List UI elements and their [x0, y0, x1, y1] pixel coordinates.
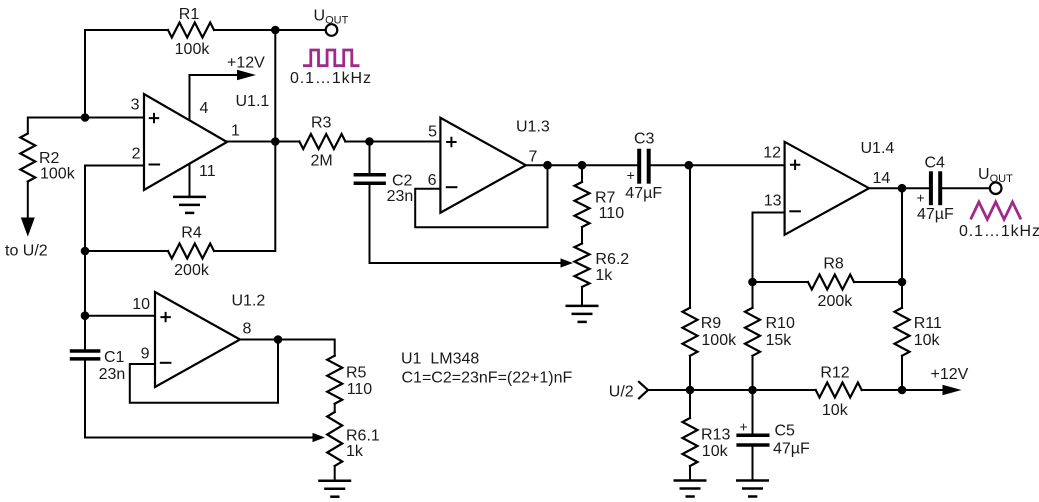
wire R4 right lead and vertical to R1 row [214, 30, 275, 251]
terminal circle UOUT left [326, 24, 338, 36]
resistor R11 [895, 308, 910, 356]
wire U1.2 output to R5 [240, 340, 335, 356]
op-amp U1.2 [155, 292, 240, 387]
wire R12 left lead [753, 389, 816, 391]
resistor R6.1 (pot) [327, 412, 342, 466]
resistor R8 [808, 275, 854, 290]
svg-text:U/2: U/2 [609, 383, 634, 400]
node U1.3 feedback [543, 161, 552, 170]
wire +input row to pin3 [85, 117, 144, 119]
svg-text:+: + [917, 190, 925, 206]
wire R1 right lead to output terminal [214, 29, 325, 31]
svg-text:100k: 100k [40, 166, 76, 183]
wire left bus top (R1 to +input row) [84, 30, 86, 118]
node R3/C2 [365, 137, 374, 146]
ground R6.1 [318, 481, 351, 497]
svg-text:C2: C2 [392, 173, 413, 190]
wire R11 column top (from U1.4 output) [901, 188, 903, 308]
resistor R13 [683, 418, 698, 466]
svg-text:C3: C3 [634, 131, 655, 148]
svg-text:+12V: +12V [931, 366, 969, 383]
plus sign U1.1 [150, 114, 158, 122]
svg-text:R6.2: R6.2 [595, 251, 629, 268]
capacitor C3 [639, 149, 649, 184]
wire R3 right lead to U1.3 pin5 [345, 141, 440, 143]
arrowhead wiper R6.2 [561, 258, 574, 267]
svg-text:47µF: 47µF [917, 206, 954, 223]
ground R6.2 [566, 306, 599, 322]
svg-text:R6.1: R6.1 [346, 428, 380, 445]
input chevron U/2 [639, 382, 648, 398]
node C3/R9 [685, 161, 694, 170]
node U/2 R10 [748, 386, 757, 395]
wire U1.4 pin13 loop [753, 213, 785, 283]
capacitor C4 [931, 171, 940, 205]
ground R13 [674, 481, 707, 497]
wire C2 top lead [369, 142, 371, 173]
wire C3 right to U1.4 pin12 [651, 164, 785, 166]
svg-text:200k: 200k [174, 262, 210, 279]
svg-text:R10: R10 [766, 315, 795, 332]
wire R8 left lead [753, 281, 809, 283]
svg-text:47µF: 47µF [625, 185, 662, 202]
resistor R1 [168, 23, 214, 38]
node U1.2 output [274, 335, 283, 344]
resistor R7 [575, 182, 590, 227]
svg-text:47µF: 47µF [773, 441, 810, 458]
svg-text:8: 8 [243, 321, 252, 338]
wire R4 left lead [85, 250, 168, 252]
node +input U1.1 [81, 113, 90, 122]
svg-text:13: 13 [764, 193, 782, 210]
ground U1.1 [173, 197, 206, 213]
svg-text:U1.4: U1.4 [861, 140, 895, 157]
svg-text:6: 6 [428, 172, 437, 189]
svg-text:200k: 200k [818, 293, 854, 310]
svg-text:7: 7 [529, 149, 538, 166]
wire R9 top lead [689, 165, 691, 308]
wire +input row to R2 [28, 118, 85, 134]
svg-text:R9: R9 [701, 315, 722, 332]
wire R6.2 to ground [581, 287, 583, 306]
wire R2 to down-arrow [27, 182, 29, 219]
svg-text:C4: C4 [925, 155, 946, 172]
svg-text:23n: 23n [387, 188, 414, 205]
wire pin4 +12V stem [190, 75, 241, 121]
svg-text:+: + [627, 167, 635, 183]
wire pin11 to ground [189, 164, 191, 197]
wire R13 to ground [689, 466, 691, 481]
wire U1.4 output to C4 [869, 187, 929, 189]
svg-text:5: 5 [428, 124, 437, 141]
svg-text:1k: 1k [595, 267, 613, 284]
capacitor C5 [736, 435, 769, 445]
svg-text:R11: R11 [914, 315, 942, 332]
svg-text:100k: 100k [701, 332, 737, 349]
minus sign U1.3 [447, 186, 457, 188]
minus sign U1.1 [150, 164, 160, 166]
resistor R10 [745, 308, 760, 356]
svg-text:C1=C2=23nF=(22+1)nF: C1=C2=23nF=(22+1)nF [402, 370, 573, 387]
svg-text:U1.1: U1.1 [236, 93, 270, 110]
svg-text:2M: 2M [311, 153, 333, 170]
wire C5 top lead [752, 390, 754, 434]
svg-text:10: 10 [132, 296, 150, 313]
plus sign U1.3 [447, 138, 455, 146]
node R8 right [898, 278, 907, 287]
node pin10 row [81, 311, 90, 320]
svg-text:to U/2: to U/2 [5, 243, 48, 260]
svg-text:R2: R2 [39, 150, 60, 167]
plus sign U1.2 [161, 313, 169, 321]
svg-text:U1.2: U1.2 [232, 293, 266, 310]
svg-text:R4: R4 [181, 225, 202, 242]
wire pin10 row [85, 315, 155, 317]
wire C2 bottom lead to R6.2 wiper [370, 186, 562, 264]
minus sign U1.4 [790, 210, 800, 212]
wire U/2 row between R9 and R10 columns [690, 389, 753, 391]
arrowhead +12V (right) [943, 385, 962, 395]
terminal circle UOUT right [990, 182, 1002, 194]
node U/2 R9 [686, 386, 695, 395]
capacitor C1 [70, 351, 101, 359]
node U/2 R11 [898, 386, 907, 395]
svg-text:110: 110 [599, 205, 625, 222]
svg-text:11: 11 [199, 163, 216, 180]
node R8 left [748, 278, 757, 287]
svg-text:U1.3: U1.3 [516, 119, 550, 136]
svg-text:9: 9 [141, 346, 150, 363]
ground C5 [736, 481, 769, 497]
svg-text:+12V: +12V [227, 55, 265, 72]
wire pin2 row to left bus, down to R4 row [85, 166, 144, 252]
svg-text:R12: R12 [820, 365, 849, 382]
wire R12 right lead [862, 389, 902, 391]
wire C5 bottom to ground [752, 447, 754, 481]
wire R9 bottom to U/2 row [689, 356, 691, 390]
resistor R6.2 (pot) [575, 244, 590, 287]
svg-text:R1: R1 [179, 6, 200, 23]
svg-text:4: 4 [200, 100, 209, 117]
wire R13 top lead [689, 390, 691, 418]
wire U1.2 pin9 feedback loop [130, 340, 278, 403]
resistor R2 [20, 134, 35, 182]
svg-text:14: 14 [873, 170, 891, 187]
triangle wave symbol [971, 202, 1021, 219]
arrowhead +12V (upper) [237, 70, 256, 80]
arrow to U/2 (down) [21, 218, 35, 237]
wire C1 bottom to R6.1 wiper [85, 361, 313, 437]
svg-text:1k: 1k [346, 443, 364, 460]
wire R10 top lead [752, 282, 754, 308]
svg-text:R7: R7 [595, 190, 616, 207]
square wave symbol [303, 50, 360, 66]
svg-text:R3: R3 [311, 115, 332, 132]
wire +12V right [902, 389, 945, 391]
svg-text:1: 1 [231, 123, 240, 140]
svg-text:UOUT: UOUT [314, 8, 349, 27]
svg-text:15k: 15k [766, 332, 793, 349]
capacitor C2 [354, 175, 386, 184]
svg-text:23n: 23n [99, 366, 126, 383]
svg-text:R5: R5 [346, 365, 367, 382]
node R4 row [81, 247, 90, 256]
svg-text:R8: R8 [823, 256, 844, 273]
resistor R4 [168, 244, 214, 259]
svg-text:+: + [740, 419, 748, 435]
minus sign U1.2 [161, 362, 171, 364]
wire R7 to R6.2 [581, 227, 583, 244]
wire C4 to right terminal [942, 187, 990, 189]
svg-text:10k: 10k [702, 443, 729, 460]
svg-text:0.1…1kHz: 0.1…1kHz [959, 223, 1039, 240]
node R7 top [578, 161, 587, 170]
node U1.4 output [898, 184, 907, 193]
op-amp U1.3 [440, 118, 525, 213]
svg-text:3: 3 [131, 97, 140, 114]
wire U1.3 output to C3 [526, 164, 637, 166]
node R1/UOUT [271, 26, 280, 35]
svg-text:100k: 100k [175, 41, 211, 58]
arrowhead wiper R6.1 [313, 433, 326, 442]
plus sign U1.4 [791, 161, 799, 169]
wire R7 top lead [581, 165, 583, 182]
resistor R5 [327, 356, 342, 404]
wire R1 left lead from left bus [85, 29, 168, 31]
svg-text:2: 2 [132, 146, 141, 163]
svg-text:UOUT: UOUT [978, 166, 1013, 185]
svg-text:110: 110 [347, 381, 373, 398]
wire R5 to R6.1 [334, 404, 336, 412]
resistor R3 [299, 134, 345, 149]
resistor R12 [816, 383, 862, 398]
wire U1.3 pin6 feedback loop [415, 165, 547, 227]
svg-text:0.1…1kHz: 0.1…1kHz [290, 70, 372, 87]
svg-text:10k: 10k [914, 332, 941, 349]
wire R10 bottom to U/2 row [752, 356, 754, 390]
op-amp U1.4 [785, 142, 869, 235]
wire R6.1 to ground [334, 466, 336, 481]
svg-text:U1 LM348: U1 LM348 [401, 351, 479, 368]
svg-text:C5: C5 [775, 423, 796, 440]
node U1.1 output [271, 137, 280, 146]
svg-text:R13: R13 [701, 427, 730, 444]
op-amp U1.1 [144, 94, 227, 190]
wire U/2 to R9 column [648, 389, 690, 391]
wire R8 right lead [854, 281, 902, 283]
resistor R9 [683, 308, 698, 356]
wire U1.1 output to R3 [227, 141, 299, 143]
svg-text:C1: C1 [104, 349, 125, 366]
wire left bus (R4 row to C1) [84, 251, 86, 349]
wire R11 bottom to U/2 row [901, 356, 903, 390]
svg-text:12: 12 [763, 145, 781, 162]
svg-text:10k: 10k [822, 402, 849, 419]
